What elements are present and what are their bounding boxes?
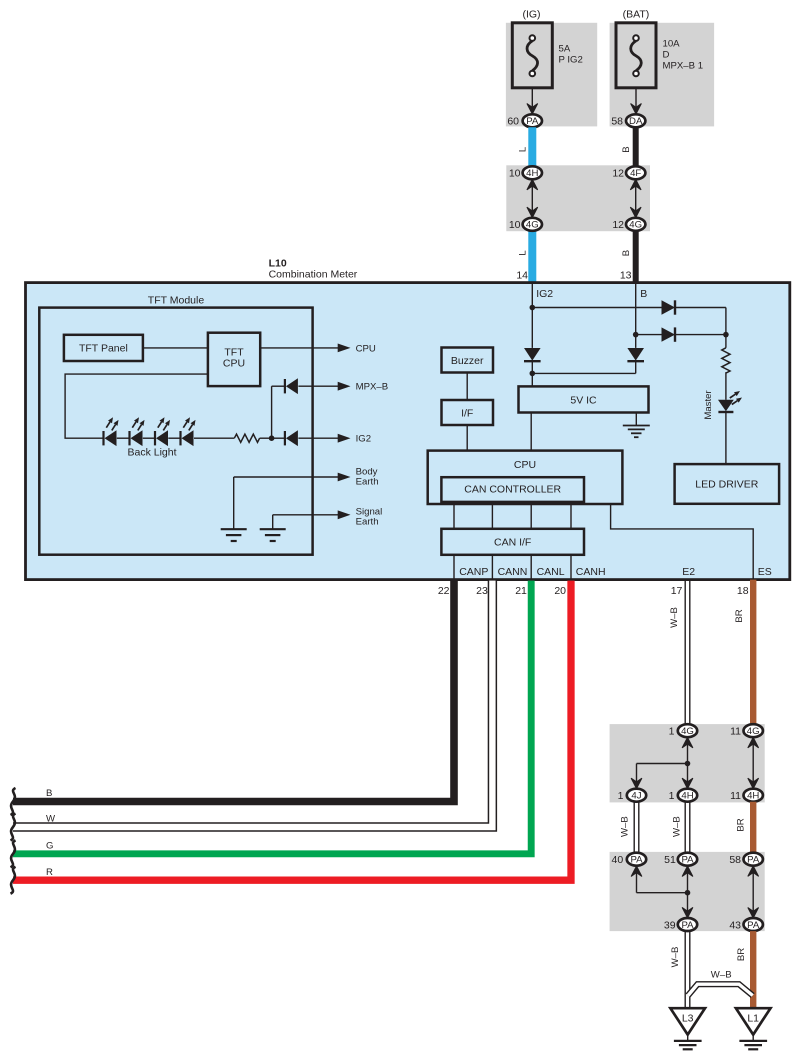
svg-text:ES: ES (758, 566, 772, 578)
svg-text:CAN I/F: CAN I/F (494, 537, 531, 549)
svg-text:58: 58 (611, 116, 623, 128)
svg-text:D: D (663, 50, 670, 61)
svg-text:PA: PA (681, 855, 694, 866)
svg-text:MPX–B: MPX–B (356, 382, 389, 393)
svg-text:12: 12 (612, 168, 624, 180)
svg-text:G: G (46, 840, 53, 851)
svg-text:BR: BR (734, 609, 745, 622)
svg-text:(IG): (IG) (522, 9, 540, 21)
svg-text:20: 20 (554, 585, 566, 597)
svg-text:Master: Master (703, 390, 714, 420)
svg-text:4G: 4G (747, 726, 760, 737)
svg-text:Buzzer: Buzzer (451, 355, 484, 367)
svg-text:MPX–B 1: MPX–B 1 (663, 61, 704, 72)
svg-text:Earth: Earth (356, 517, 379, 528)
svg-text:4G: 4G (681, 726, 694, 737)
svg-text:I/F: I/F (461, 407, 473, 419)
svg-text:BR: BR (736, 818, 747, 831)
svg-text:Earth: Earth (356, 476, 379, 487)
svg-text:L1: L1 (747, 1013, 759, 1025)
svg-text:5V IC: 5V IC (570, 394, 597, 406)
svg-text:Combination Meter: Combination Meter (269, 269, 358, 281)
svg-text:21: 21 (515, 585, 527, 597)
svg-text:40: 40 (612, 854, 624, 866)
svg-text:10: 10 (509, 168, 521, 180)
svg-text:B: B (621, 250, 632, 256)
svg-text:L: L (518, 250, 529, 256)
svg-text:58: 58 (729, 854, 741, 866)
svg-text:23: 23 (476, 585, 488, 597)
svg-text:4H: 4H (681, 791, 693, 802)
svg-text:PA: PA (747, 920, 760, 931)
svg-text:22: 22 (438, 585, 450, 597)
svg-text:(BAT): (BAT) (623, 9, 650, 21)
svg-text:CANH: CANH (576, 566, 606, 578)
svg-text:4H: 4H (526, 168, 538, 179)
svg-text:39: 39 (664, 919, 676, 931)
svg-text:BR: BR (736, 948, 747, 961)
svg-text:4G: 4G (629, 220, 642, 231)
svg-text:CANP: CANP (459, 566, 488, 578)
svg-text:10A: 10A (663, 39, 681, 50)
svg-text:IG2: IG2 (536, 288, 553, 300)
svg-text:14: 14 (516, 270, 528, 282)
svg-text:11: 11 (730, 790, 741, 802)
svg-text:W: W (46, 814, 56, 825)
svg-text:1: 1 (669, 726, 675, 738)
svg-text:4J: 4J (631, 791, 641, 802)
svg-text:CANL: CANL (537, 566, 565, 578)
svg-text:Back Light: Back Light (128, 447, 177, 459)
svg-text:W–B: W–B (711, 970, 732, 981)
svg-text:IG2: IG2 (356, 434, 371, 445)
svg-text:L3: L3 (682, 1013, 694, 1025)
svg-text:W–B: W–B (670, 947, 681, 968)
svg-text:CPU: CPU (356, 343, 376, 354)
svg-text:CPU: CPU (223, 358, 245, 370)
svg-text:TFT Module: TFT Module (148, 294, 205, 306)
svg-text:CANN: CANN (498, 566, 528, 578)
svg-text:43: 43 (729, 919, 741, 931)
svg-text:17: 17 (671, 585, 683, 597)
svg-text:60: 60 (507, 116, 519, 128)
svg-text:W–B: W–B (669, 607, 680, 628)
svg-text:11: 11 (730, 726, 741, 738)
svg-text:4H: 4H (747, 791, 759, 802)
svg-text:1: 1 (669, 790, 675, 802)
svg-text:CPU: CPU (514, 459, 536, 471)
svg-text:L: L (518, 146, 529, 152)
svg-text:W–B: W–B (620, 816, 631, 837)
svg-text:B: B (621, 146, 632, 152)
svg-text:5A: 5A (559, 44, 571, 55)
svg-text:PA: PA (630, 855, 643, 866)
svg-text:1: 1 (618, 790, 624, 802)
svg-text:LED DRIVER: LED DRIVER (695, 479, 758, 491)
svg-text:P IG2: P IG2 (559, 55, 583, 66)
svg-text:51: 51 (664, 854, 676, 866)
svg-text:10: 10 (509, 219, 521, 231)
svg-text:DA: DA (629, 116, 643, 127)
svg-text:R: R (46, 867, 53, 878)
svg-text:B: B (640, 288, 647, 300)
svg-text:13: 13 (620, 270, 632, 282)
svg-text:4G: 4G (526, 220, 539, 231)
svg-text:B: B (46, 788, 52, 799)
svg-text:E2: E2 (682, 566, 695, 578)
svg-text:W–B: W–B (672, 816, 683, 837)
svg-text:4F: 4F (630, 168, 641, 179)
svg-text:TFT Panel: TFT Panel (79, 343, 128, 355)
svg-text:PA: PA (526, 116, 539, 127)
svg-text:PA: PA (747, 855, 760, 866)
svg-text:12: 12 (612, 219, 624, 231)
svg-text:18: 18 (737, 585, 749, 597)
svg-text:CAN CONTROLLER: CAN CONTROLLER (464, 484, 561, 496)
svg-text:PA: PA (681, 920, 694, 931)
